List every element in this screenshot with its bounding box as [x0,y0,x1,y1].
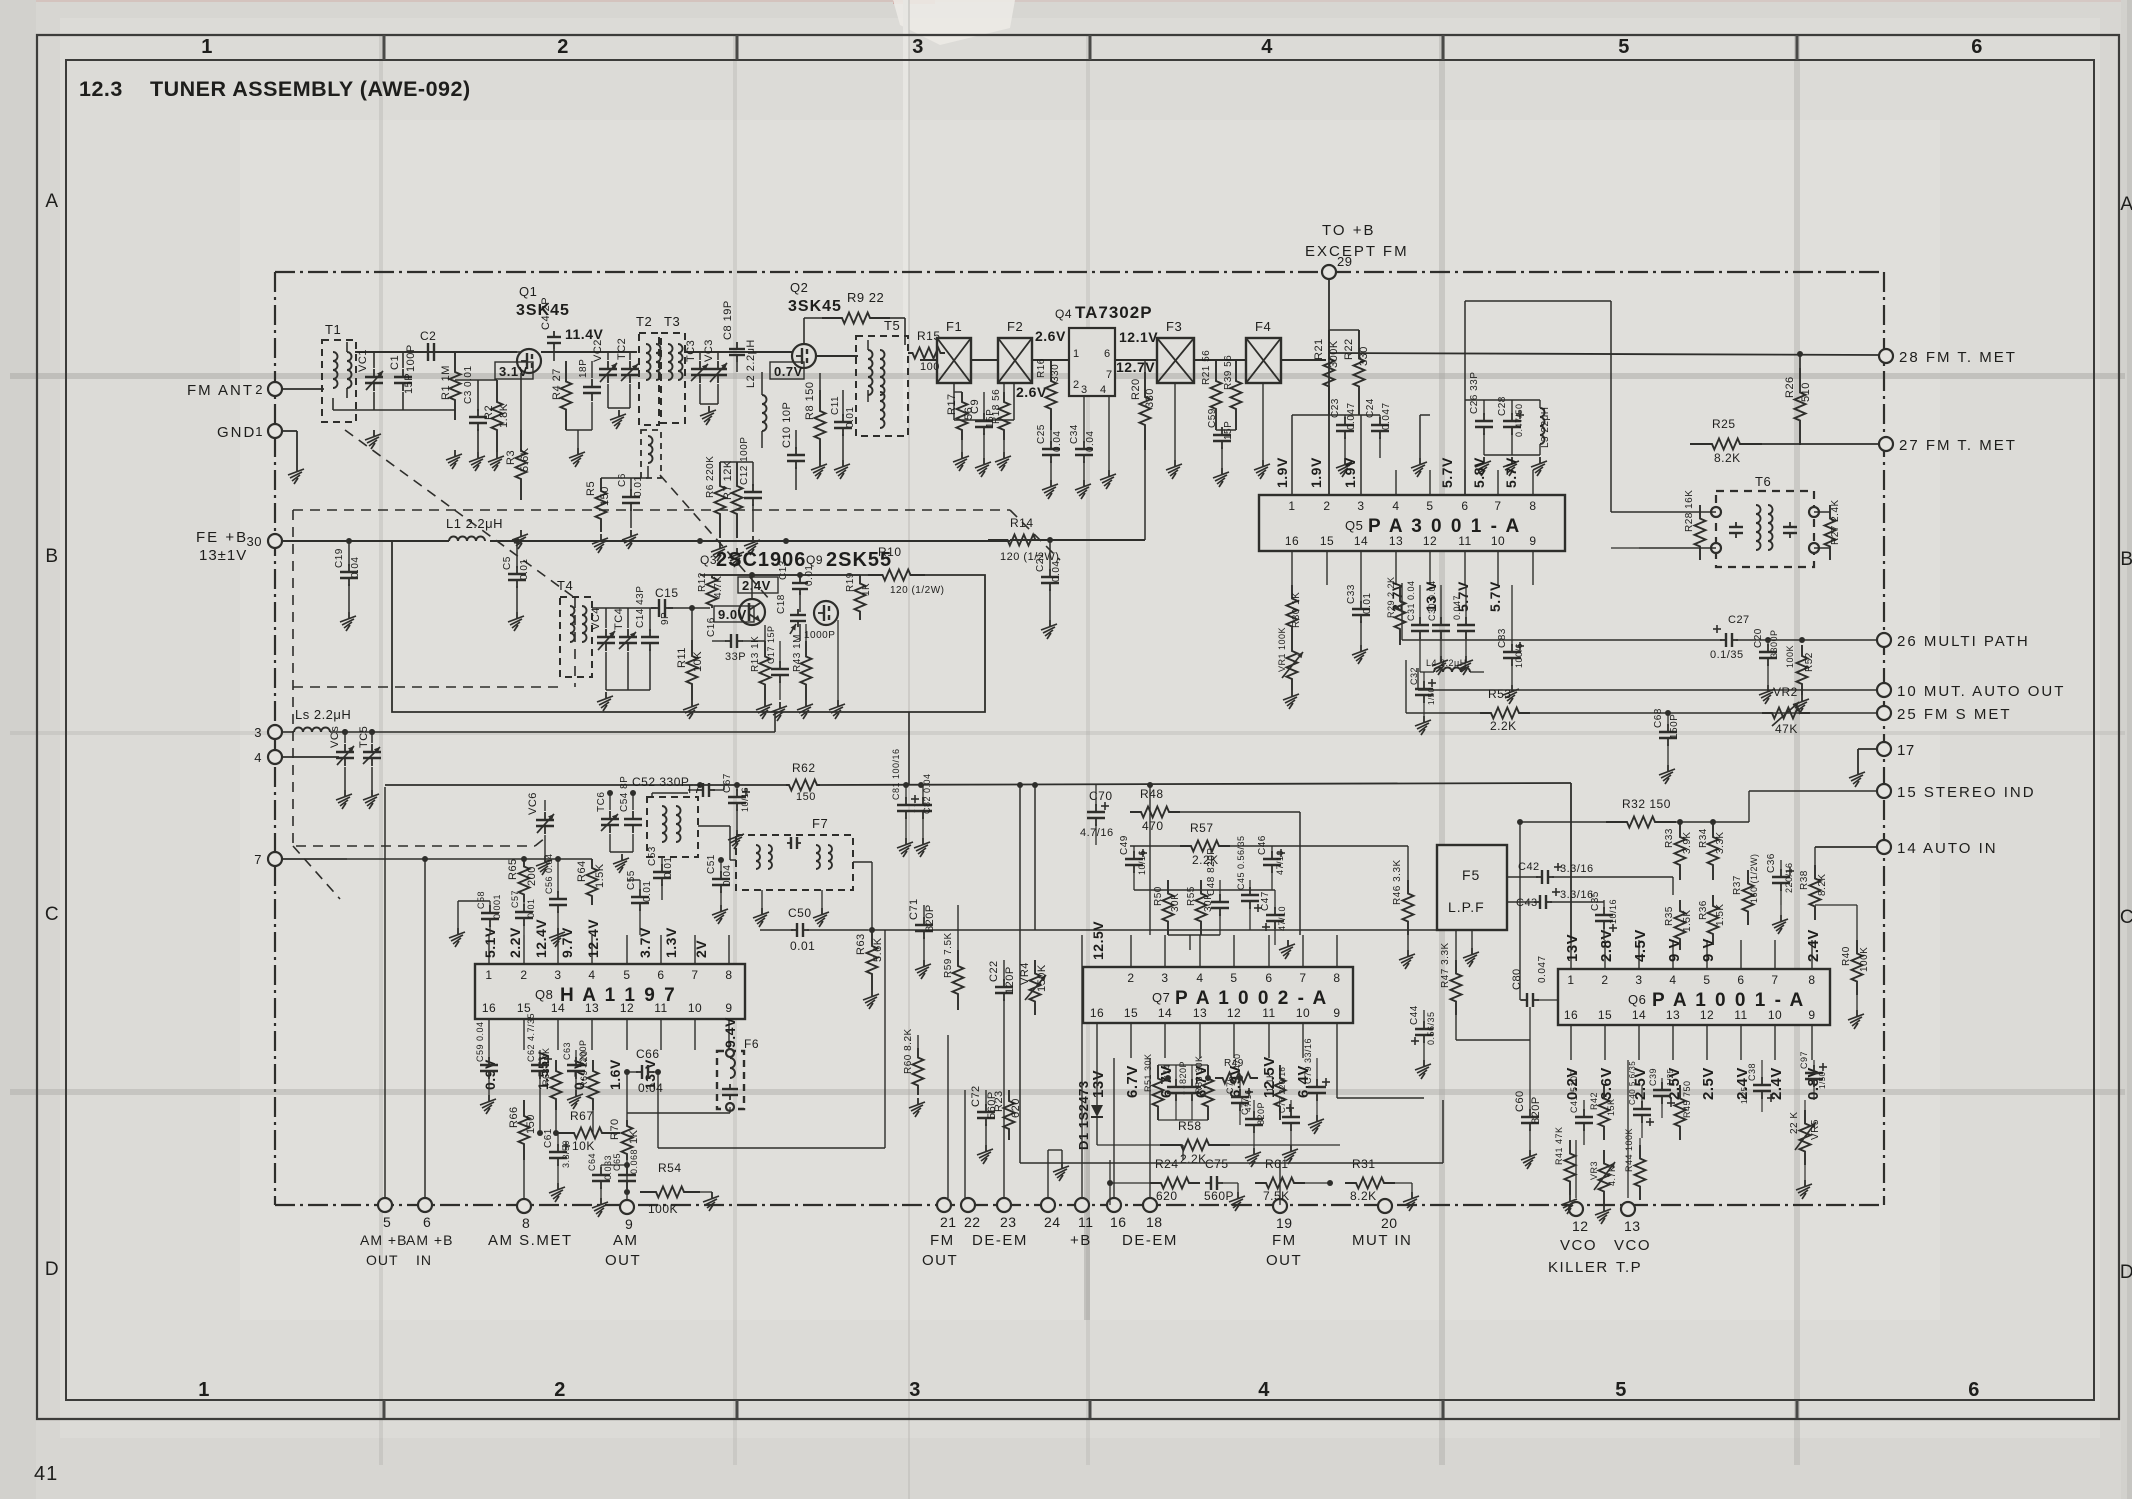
svg-text:0.047: 0.047 [1537,955,1548,983]
capacitor C12 100P [739,437,762,532]
resistor R68 10K [541,1047,562,1110]
svg-text:1/50: 1/50 [1818,1071,1827,1089]
svg-text:5.8V: 5.8V [1471,457,1487,488]
svg-text:T3: T3 [664,314,680,329]
svg-text:4: 4 [1669,973,1676,987]
svg-text:3.3/16: 3.3/16 [1560,863,1594,875]
svg-text:0.001: 0.001 [492,894,502,919]
svg-text:2.6V: 2.6V [1035,328,1066,344]
resistor R13 1K [750,625,771,700]
svg-text:28 FM T. MET: 28 FM T. MET [1899,349,2017,366]
svg-text:T7: T7 [686,782,701,796]
svg-text:5.7V: 5.7V [1503,457,1519,488]
wire pins to terminals [524,1069,630,1200]
capacitor C8 19P [722,300,745,362]
svg-text:2: 2 [1127,971,1134,985]
resistor R4 27 [551,361,572,430]
electrolytic C70 4.7/16 [1080,785,1114,845]
svg-text:C36: C36 [1766,853,1777,873]
svg-text:3.9K: 3.9K [1682,831,1693,854]
svg-text:R63: R63 [855,933,867,955]
svg-text:C51: C51 [706,854,717,874]
svg-text:13V: 13V [1564,934,1581,962]
svg-text:R24: R24 [1155,1157,1179,1171]
electrolytic C47 47/10 [1260,890,1295,959]
svg-text:B: B [2120,549,2132,570]
terminal 26 MULTI PATH [1877,633,2030,650]
capacitor C80 0.047 [1511,955,1558,1007]
voltage 12.5V pin1 [1090,921,1106,960]
resistor R48 470 [1130,787,1300,833]
terminal 2 FM ANT [187,382,324,399]
svg-text:0.068: 0.068 [629,1149,639,1174]
svg-text:1000P: 1000P [804,630,835,641]
svg-text:MUT IN: MUT IN [1352,1232,1412,1249]
capacitor C48 820P [1206,848,1229,935]
bottom terminal labels [360,1232,1651,1276]
resistor R34 3.3K [1676,819,1749,880]
capacitor C11 0.01 [830,390,856,460]
svg-text:D: D [2120,1262,2132,1283]
wire from 3 down [420,712,775,732]
svg-text:10/16: 10/16 [1137,850,1147,875]
svg-text:C46: C46 [1257,835,1268,855]
svg-text:12.3: 12.3 [79,77,123,101]
svg-text:1.8K: 1.8K [498,403,510,428]
svg-text:C68: C68 [1653,708,1664,728]
svg-text:R53: R53 [1488,687,1512,701]
svg-text:2.2K: 2.2K [1490,719,1517,733]
svg-text:TC6: TC6 [596,792,607,812]
capacitor C51 0.04 [706,854,733,905]
svg-text:100P: 100P [405,344,417,372]
svg-text:30K: 30K [1170,893,1181,912]
svg-text:F3: F3 [1166,319,1182,334]
svg-text:L3 22μH: L3 22μH [1540,406,1551,448]
svg-text:A: A [45,191,58,212]
label Q3 2SC1906 [700,549,806,571]
capacitor C21 0.04 [1035,537,1062,620]
HA1197 top stubs [489,935,729,964]
svg-text:41: 41 [34,1463,58,1485]
resistor R9 22 [804,290,905,348]
svg-text:1: 1 [1073,348,1080,360]
svg-text:1.5K: 1.5K [1682,909,1693,932]
PA1002 top stubs [1131,935,1337,967]
svg-text:6: 6 [1265,971,1272,985]
svg-text:120 (1/2W): 120 (1/2W) [890,585,944,596]
resistor R21 300K [1313,330,1340,415]
svg-text:3: 3 [1357,499,1364,513]
ground C19 [340,612,356,631]
terminal 11 [1075,1198,1094,1230]
resistor R52 100K [1785,645,1815,714]
svg-text:620: 620 [1156,1189,1178,1203]
ground C59 [1213,468,1229,487]
svg-text:6: 6 [1461,499,1468,513]
electrolytic C32 1/50 [1409,667,1436,735]
oscillator enclosure box [392,541,985,712]
svg-text:TUNER ASSEMBLY (AWE-092): TUNER ASSEMBLY (AWE-092) [150,77,471,101]
svg-text:B: B [45,546,58,567]
svg-text:15: 15 [1320,534,1334,548]
svg-text:0.04: 0.04 [638,1081,663,1095]
svg-text:C4 2P: C4 2P [540,297,552,330]
svg-text:2: 2 [520,968,527,982]
ic Q8 HA1197 [475,964,745,1019]
PA3001 bottom voltages [1389,581,1503,612]
terminal 21 [937,1198,957,1230]
resistor R58 2.2K [1160,1058,1340,1166]
svg-text:7.5K: 7.5K [1263,1189,1290,1203]
svg-text:5: 5 [1618,36,1630,58]
svg-text:6: 6 [1737,973,1744,987]
ground R6 [711,542,727,561]
resistor R21b 56 [1201,350,1222,430]
svg-text:4: 4 [1261,36,1273,58]
svg-text:R4 27: R4 27 [551,368,563,400]
svg-text:8: 8 [725,968,732,982]
svg-text:C10 10P: C10 10P [781,402,793,448]
ground F7b [813,890,829,927]
svg-text:C83: C83 [1497,628,1508,648]
svg-text:C16: C16 [706,617,717,637]
svg-text:C43: C43 [1516,897,1538,909]
wire osc top [712,572,860,641]
electrolytic C43 3.3/16 [1507,888,1604,909]
capacitor C33 0.01 [1346,584,1373,664]
svg-text:3300P: 3300P [1769,629,1779,658]
svg-text:C30 0.04: C30 0.04 [1427,580,1437,621]
svg-text:C79 33/16: C79 33/16 [1303,1038,1313,1084]
page number 41 [34,1463,58,1485]
svg-text:8: 8 [1529,499,1536,513]
svg-text:4.5V: 4.5V [1632,929,1649,962]
capacitor C9 15P [969,392,996,458]
wire T2 lower tap [601,466,648,478]
ground TC6 C54 [610,852,633,873]
svg-text:R35: R35 [1664,906,1675,926]
ground VCs [336,790,352,809]
svg-text:1: 1 [1288,499,1295,513]
svg-text:0.04: 0.04 [1052,431,1063,452]
resistor R45 750 [1675,1080,1693,1140]
svg-text:VC3: VC3 [703,339,715,362]
svg-text:R64: R64 [576,860,588,882]
svg-text:2.5V: 2.5V [1700,1067,1717,1100]
resistor R69 220 [579,1050,599,1110]
svg-text:R10: R10 [878,545,902,559]
svg-text:0.04: 0.04 [1085,431,1096,452]
HA1197 bottom stubs [489,1019,729,1050]
svg-text:C54 8P: C54 8P [619,776,630,812]
svg-text:R70: R70 [609,1118,621,1140]
terminal 30 FE +B [196,529,282,564]
transistor Q9 fet [814,601,838,625]
terminal 9 [620,1200,634,1232]
electrolytic C44 0.56/35 [1409,1005,1436,1079]
svg-text:0.7V: 0.7V [774,364,803,379]
electrolytic C38 1/25 [1740,1060,1775,1112]
svg-text:R6 220K: R6 220K [705,456,716,498]
svg-text:Q5: Q5 [1345,518,1363,533]
wire R6R7 top [720,461,753,463]
wire pin5 C55 [627,880,640,935]
svg-text:VR3: VR3 [1589,1161,1599,1180]
svg-text:9.7V: 9.7V [559,927,575,958]
ground C81 [897,838,913,857]
svg-text:330: 330 [1144,388,1156,408]
svg-text:C44: C44 [1409,1005,1420,1025]
svg-text:9: 9 [1529,534,1536,548]
svg-text:0.01: 0.01 [845,407,856,428]
electrolytic C35 10/16 [1590,891,1618,940]
capacitor C22 120P [988,960,1016,1030]
svg-text:OUT: OUT [1266,1252,1302,1269]
capacitor 820P d [1178,1061,1201,1120]
svg-text:R65: R65 [507,858,519,880]
svg-text:C: C [45,904,59,925]
capacitor C15 9P [651,586,679,625]
T6 terminals [1711,507,1819,553]
wire mutauto [1418,668,1877,690]
ground C9 [953,440,1011,477]
ground C25 [1042,480,1058,499]
svg-text:15: 15 [517,1001,531,1015]
varicap VC6 [527,792,554,856]
svg-text:Q2: Q2 [790,280,808,295]
wire pa1002 upper [1096,845,1275,950]
svg-text:2V: 2V [693,940,709,958]
svg-text:8: 8 [1808,973,1815,987]
capacitor C59 15P [1207,408,1236,468]
svg-text:0.04: 0.04 [722,865,733,886]
svg-text:15K: 15K [1606,1098,1616,1116]
inductor L1 2.2uH [446,516,503,541]
ground Q9 [829,620,845,719]
svg-text:14: 14 [1354,534,1368,548]
svg-text:18: 18 [1146,1214,1163,1230]
svg-text:10K: 10K [572,1139,595,1153]
wire C26 row top [1465,400,1547,495]
svg-text:330: 330 [1050,364,1061,382]
terminal 7 [254,852,347,867]
svg-text:2: 2 [557,36,569,58]
svg-text:C71: C71 [908,898,920,920]
svg-text:T.P: T.P [1616,1259,1642,1276]
svg-text:C61: C61 [543,1128,554,1148]
svg-text:2SC1906: 2SC1906 [716,549,806,571]
svg-text:C78 220/16: C78 220/16 [1278,1067,1287,1113]
capacitor C16 33P [706,608,765,663]
svg-text:3: 3 [1081,384,1088,396]
svg-text:7: 7 [1106,369,1113,381]
svg-text:R21: R21 [1313,338,1325,360]
svg-text:5.6K: 5.6K [872,937,884,962]
svg-text:4: 4 [1196,971,1203,985]
svg-text:0.01: 0.01 [1362,593,1373,614]
capacitor C19 0.04 [334,541,361,612]
svg-text:C62 4.7/35: C62 4.7/35 [526,1013,536,1062]
capacitor C74 [1162,1064,1185,1120]
terminal 18 [1143,1198,1163,1230]
svg-text:12.4V: 12.4V [585,919,601,958]
wire FM signal row [355,352,1326,360]
svg-text:F2: F2 [1007,319,1023,334]
svg-text:C45 0.56/35: C45 0.56/35 [1236,835,1246,890]
terminal 23 [997,1198,1017,1230]
svg-text:R14: R14 [1010,516,1034,530]
T6 coils [1729,505,1797,550]
svg-text:C20: C20 [1753,628,1764,648]
svg-text:2: 2 [1323,499,1330,513]
svg-text:15: 15 [1124,1006,1138,1020]
ground C23 [1336,458,1352,477]
svg-text:R29 2.2K: R29 2.2K [1386,576,1396,618]
svg-text:T5: T5 [884,318,900,333]
resistor R29 2.2K [1386,576,1406,645]
svg-text:R40: R40 [1841,946,1852,966]
svg-text:16: 16 [1285,534,1299,548]
svg-text:R18 56: R18 56 [991,389,1002,424]
electrolytic C76 47/16 [1225,1076,1253,1125]
svg-text:TC5: TC5 [358,726,370,748]
capacitor C64 0.033 [587,1153,630,1217]
wire C58 top [449,901,490,947]
svg-text:6.7V: 6.7V [1124,1065,1141,1098]
svg-text:VC4: VC4 [590,607,602,630]
svg-text:100K: 100K [1859,947,1870,972]
svg-text:5.6K: 5.6K [519,447,531,472]
resistor R20 330 [1130,360,1156,450]
svg-text:120P: 120P [1004,966,1016,994]
ground at terminal 17 [1849,768,1865,787]
terminal 17 [1858,742,1915,768]
electrolytic C49 10/16 [1119,835,1147,890]
capacitor C49b 0.047 [1452,585,1475,675]
resistor R46 3.3K [1392,846,1415,969]
resistor R60 8.2K [903,1028,925,1117]
svg-text:R47 3.3K: R47 3.3K [1440,942,1451,988]
svg-text:R69 220: R69 220 [579,1050,589,1088]
svg-text:C17 15P: C17 15P [766,625,776,664]
wire F4 to R2122 [1325,352,1327,360]
svg-text:Q7: Q7 [1152,990,1170,1005]
terminal 5 [378,1198,392,1230]
resistor R28 16K [1684,490,1716,560]
svg-text:2.4V: 2.4V [742,578,771,593]
ic Q7 PA1002-A [1083,967,1353,1023]
resistor R10 120 [868,545,944,596]
ground C82 [914,838,930,857]
svg-text:R30 1K: R30 1K [1291,592,1302,628]
svg-text:22 K: 22 K [1789,1111,1800,1134]
ground R7 [728,548,744,567]
wire R1R2 [455,379,497,381]
varicap VC3 [703,339,727,404]
svg-text:100/6: 100/6 [1514,643,1524,668]
svg-text:C12 100P: C12 100P [739,437,750,485]
svg-text:R7 12K: R7 12K [722,460,734,500]
svg-text:EXCEPT FM: EXCEPT FM [1305,243,1409,260]
svg-text:5: 5 [1703,973,1710,987]
resistor R57 2.2K [1130,821,1408,867]
ground C17 [771,702,787,721]
trimmer TC6 [596,790,619,852]
trimmer TC2 [616,338,639,408]
resistor R7 12K [722,460,743,538]
svg-text:9: 9 [1333,1006,1340,1020]
terminal 10 MUT.AUTO OUT [1877,683,2065,700]
resistor R18 56 [991,383,1010,440]
svg-text:TC4: TC4 [613,608,625,630]
svg-text:Ls 2.2μH: Ls 2.2μH [295,707,351,722]
svg-text:1.5K: 1.5K [594,863,606,888]
varistor VR3 4.7K [1589,1150,1617,1224]
svg-text:2: 2 [554,1379,566,1401]
svg-text:0.01: 0.01 [519,559,530,580]
filter F1 [937,319,971,383]
svg-text:VR5: VR5 [1810,1119,1821,1140]
resistor R17 56 [946,392,975,440]
svg-text:7: 7 [1771,973,1778,987]
ground R1 [446,450,462,469]
svg-text:11: 11 [1078,1214,1094,1230]
svg-text:6: 6 [1968,1379,1980,1401]
ground R5 [592,534,608,553]
terminal 6 [418,1198,432,1230]
terminal 22 [961,1198,981,1230]
svg-text:H A 1 1 9 7: H A 1 1 9 7 [560,985,677,1006]
svg-text:TC3: TC3 [685,340,697,362]
capacitor C2 100P [405,329,442,372]
electrolytic C81 100/16 [891,748,919,838]
svg-text:0.47/50: 0.47/50 [1514,403,1524,437]
svg-text:C8 19P: C8 19P [722,300,734,340]
wire pa1002 pins down [1280,1058,1337,1205]
svg-text:IN: IN [416,1252,432,1268]
svg-text:4: 4 [1100,384,1107,396]
diode D1 1S2473 [1076,1058,1103,1150]
svg-text:4.7/16: 4.7/16 [1080,827,1114,839]
svg-text:3: 3 [254,725,262,740]
wire stereo ind [1749,791,1877,822]
ground R3 [512,530,528,549]
resistor R3 5.6K [505,430,531,500]
svg-text:8: 8 [1333,971,1340,985]
svg-text:OUT: OUT [366,1252,399,1268]
transformer T3 [661,314,685,423]
svg-text:820P: 820P [1256,1102,1266,1125]
capacitor C10 10P [781,402,805,490]
resistor R63 5.6K [853,862,884,990]
transistor Q3 bjt [712,599,765,625]
svg-text:47K: 47K [1775,722,1798,736]
svg-text:13: 13 [1624,1218,1641,1234]
resistor R51 30K [1143,1053,1164,1120]
inductor L4 2.2uH [1420,656,1484,672]
electrolytic C42 3.3/16 [1507,861,1673,895]
svg-text:0.9V: 0.9V [482,1059,498,1090]
svg-text:F1: F1 [946,319,962,334]
svg-text:C52 330P: C52 330P [632,775,689,789]
svg-text:F7: F7 [812,816,828,831]
voltage 2.4V at Q3 [738,577,778,593]
resistor R61 7.5K [1255,1157,1330,1203]
resistor R66 150 [508,1050,537,1160]
svg-text:10/16: 10/16 [1608,899,1618,924]
resistor R12 4.7K [697,572,724,608]
